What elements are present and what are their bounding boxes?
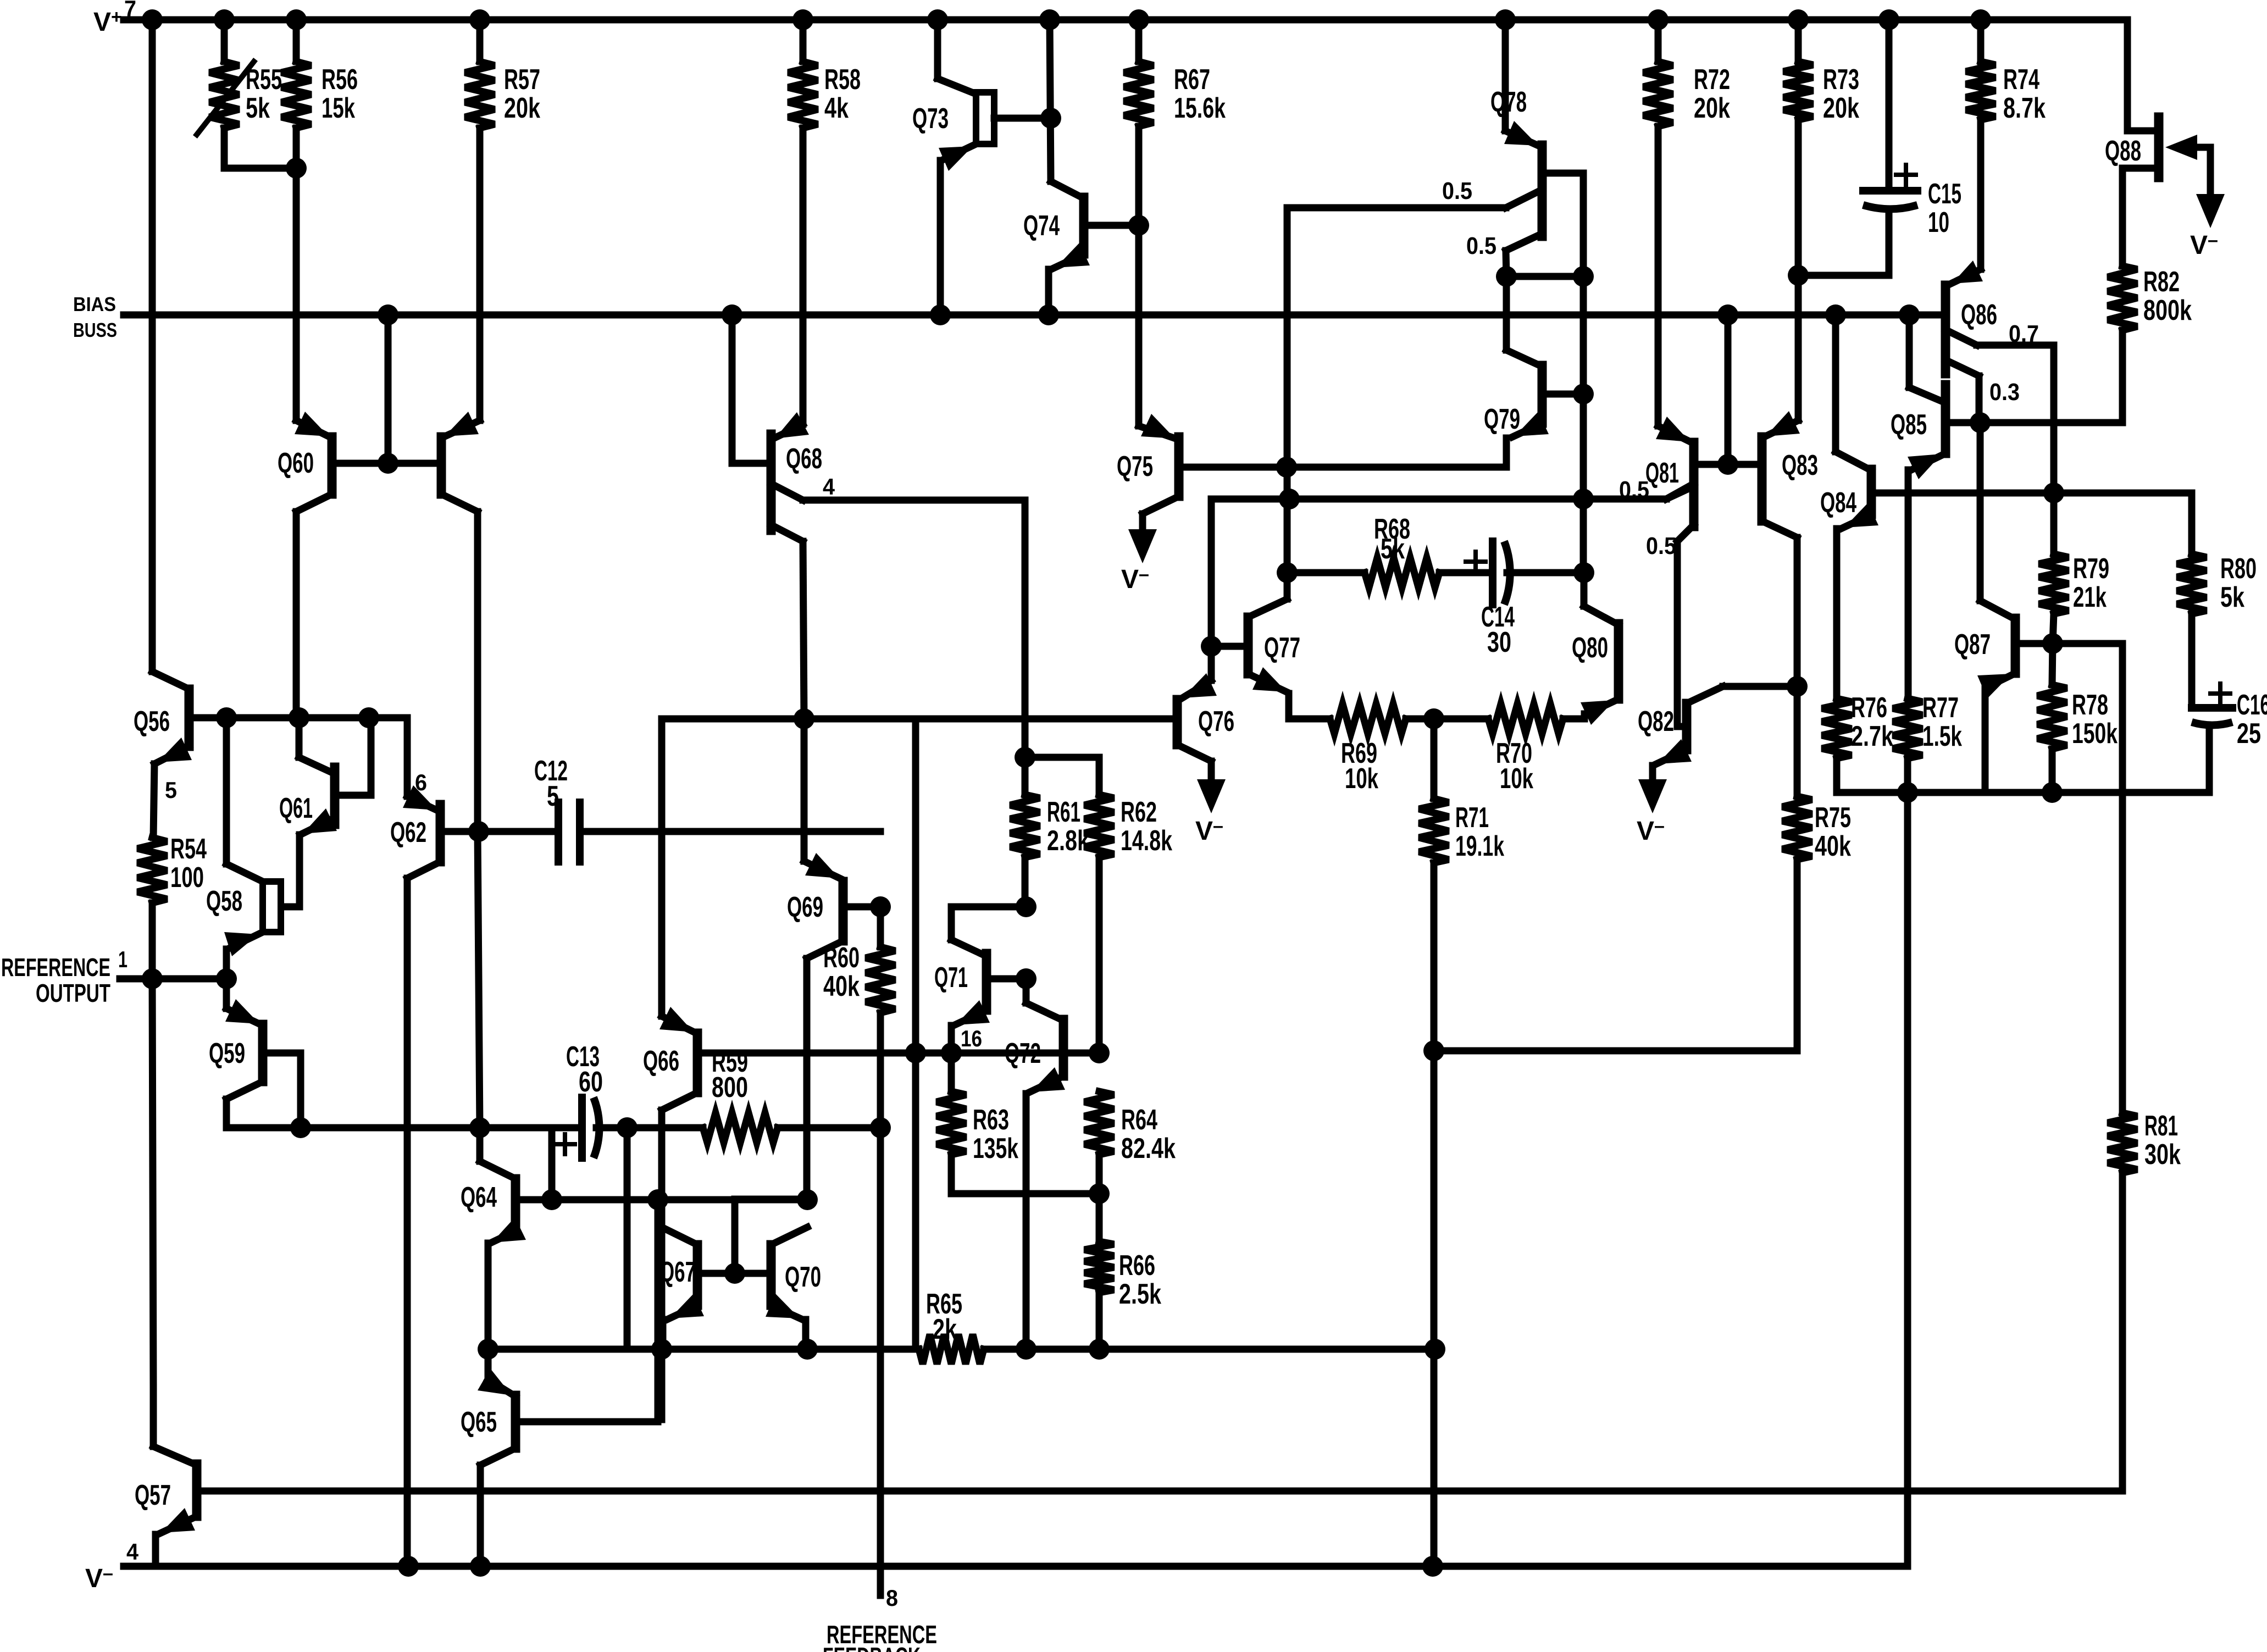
svg-text:100: 100 [170,862,204,894]
V- terminal arrow for Q76 collector [1208,761,1215,796]
resistor R78 150k [2052,644,2053,685]
svg-text:R77: R77 [1922,692,1959,724]
transistor Q74 [1079,197,1089,254]
resistor R81 30k [2108,1113,2137,1173]
junction on V+ rail [1970,9,1991,30]
svg-text:5: 5 [165,777,177,803]
svg-text:R62: R62 [1121,796,1157,828]
svg-text:2.5k: 2.5k [1119,1278,1161,1310]
V- rail (pin 4) [124,1563,1908,1570]
svg-text:30: 30 [1487,627,1511,658]
wire bias buss to Q60 bases [385,315,392,463]
resistor R77 1.5k [1893,699,1922,758]
transistor Q83 [1758,437,1767,521]
REFERENCE FEEDBACK line (pin 8) [877,1128,884,1595]
svg-text:40k: 40k [823,971,860,1002]
resistor R54 100 [137,838,167,903]
resistor R56 15k [293,20,300,62]
svg-text:R81: R81 [2144,1110,2178,1142]
svg-text:Q65: Q65 [461,1406,497,1438]
junction on bias buss [722,304,742,325]
svg-text:R58: R58 [824,64,861,96]
svg-text:Q84: Q84 [1820,487,1856,519]
svg-text:21k: 21k [2073,581,2107,613]
svg-text:5k: 5k [2220,581,2244,613]
resistor R63 135k [948,1053,955,1091]
svg-text:R57: R57 [504,64,540,96]
transistor Q86 (dual collector) [1941,285,1950,374]
svg-text:40k: 40k [1815,830,1851,862]
svg-text:Q71: Q71 [934,962,968,994]
resistor R82 800k [2119,168,2126,266]
svg-text:REFERENCE: REFERENCE [1,953,110,982]
transistor Q87 [2011,618,2020,673]
Q67/Q70 base node [724,1263,745,1284]
wire down to Q77 base and V- [1208,499,1215,646]
svg-text:14.8k: 14.8k [1121,825,1172,857]
svg-text:135k: 135k [973,1133,1018,1165]
svg-text:Q86: Q86 [1961,299,1997,331]
C15 bottom wire to R73 column [1798,272,1889,279]
svg-text:R61: R61 [1047,796,1080,828]
resistor R55 5k (trimmed) [221,20,228,62]
svg-text:R73: R73 [1823,64,1859,96]
transistor Q61 [330,767,340,824]
svg-text:Q70: Q70 [785,1261,821,1293]
wire R75 bottom to R71 node [1434,1047,1797,1055]
transistor Q58 (box symbol) [263,882,281,932]
capacitor C13 60pF [578,1097,586,1158]
svg-text:R54: R54 [170,833,207,865]
svg-text:Q85: Q85 [1891,409,1927,441]
svg-text:R66: R66 [1119,1250,1155,1282]
interstage wire [662,716,1173,723]
svg-text:20k: 20k [1694,92,1730,124]
transistor Q76 [1173,700,1182,745]
svg-text:Q58: Q58 [206,885,242,917]
transistor Q73 (box symbol) [934,20,941,79]
svg-text:R71: R71 [1455,802,1489,834]
resistor R59 800 [703,1113,778,1143]
resistor R69 10k [1330,704,1406,734]
resistor R75 40k [1782,796,1812,860]
resistor R60 40k [877,907,884,947]
svg-text:R80: R80 [2220,553,2257,585]
resistor R57 20k [476,20,484,62]
transistor Q68 (dual collector PNP) [767,434,776,530]
svg-text:Q57: Q57 [135,1479,171,1511]
resistor R64 82.4k [1084,1091,1114,1155]
transistor Q65 [511,1395,520,1448]
svg-text:Q69: Q69 [787,891,823,923]
resistor R80 5k [2188,493,2196,554]
transistor Q60 right PNP [437,437,446,494]
Q60 base wire [332,460,441,467]
V- terminal arrow for Q82 [1638,779,1667,813]
svg-text:5: 5 [547,780,559,812]
junction on V+ rail [1788,9,1809,30]
svg-text:Q60: Q60 [278,447,314,479]
R65 node wire [488,1346,919,1353]
resistor R66 2.5k [1096,1194,1103,1241]
svg-text:150k: 150k [2072,718,2118,750]
svg-text:R72: R72 [1694,64,1730,96]
wire Q60R collector down [474,512,481,831]
transistor Q77 [1244,617,1253,674]
resistor R65 2k [919,1334,984,1364]
compensation node wire [1287,569,1365,576]
svg-text:Q75: Q75 [1117,451,1153,483]
transistor Q64 [511,1179,520,1231]
svg-text:0.7: 0.7 [2009,320,2039,347]
V- terminal arrow for Q75 [1128,529,1157,563]
svg-text:R55: R55 [246,64,282,96]
junction on V+ rail [1039,9,1060,30]
svg-text:15.6k: 15.6k [1174,92,1226,124]
transistor Q79 [1538,365,1547,423]
svg-text:R78: R78 [2072,689,2108,721]
junction on V+ rail [1128,9,1149,30]
wire C13 right to R65 node [624,1128,631,1349]
svg-text:R82: R82 [2143,266,2180,298]
svg-text:2.8k: 2.8k [1047,825,1089,857]
svg-text:800k: 800k [2143,295,2192,326]
svg-text:Q56: Q56 [134,706,170,738]
transistor Q75 [1174,437,1184,496]
svg-text:C16: C16 [2237,689,2267,721]
svg-text:R76: R76 [1851,692,1887,724]
svg-text:30k: 30k [2144,1139,2181,1171]
capacitor C15 10pF [1886,20,1893,191]
svg-text:R56: R56 [322,64,358,96]
junction on V+ rail [1648,9,1669,30]
transistor Q84 [1867,469,1876,514]
junction on V+ rail [1878,9,1899,30]
node dot R55/R56 junction [286,158,307,179]
svg-text:0.5: 0.5 [1646,533,1676,559]
base bias wire to R82 [1980,330,2122,423]
junction on V+ rail [469,9,490,30]
bias return wire [1837,789,2209,796]
svg-text:R60: R60 [823,942,860,974]
svg-text:Q66: Q66 [643,1045,679,1077]
junction on V- rail [1422,1556,1443,1577]
svg-text:82.4k: 82.4k [1121,1133,1176,1165]
junction on V+ rail [927,9,948,30]
transistor Q66 [693,1033,702,1093]
resistor R73 20k [1795,20,1802,62]
transistor Q60 left PNP [328,437,337,494]
svg-text:Q81: Q81 [1645,457,1679,489]
svg-text:R75: R75 [1815,802,1851,834]
svg-text:Q61: Q61 [279,792,313,824]
wire Q62 base node down [478,831,480,1128]
svg-text:4k: 4k [824,92,849,124]
junction on bias buss [1038,304,1059,325]
transistor Q57 [192,1464,202,1516]
svg-text:Q79: Q79 [1484,403,1520,435]
svg-text:BUSS: BUSS [73,319,117,341]
driver node wire [1211,496,1666,503]
junction on bias buss [1825,304,1846,325]
svg-text:Q64: Q64 [461,1182,497,1213]
svg-text:7: 7 [124,0,136,21]
svg-text:2.7k: 2.7k [1851,720,1893,752]
svg-text:0.5: 0.5 [1442,178,1472,204]
reference node wire [226,1124,582,1132]
svg-text:Q78: Q78 [1490,86,1527,118]
svg-text:1: 1 [118,946,128,972]
transistor Q85 [1941,385,1950,453]
capacitor C16 25pF [2192,704,2232,712]
resistor R70 10k [1488,704,1563,734]
junction on V- rail [470,1556,491,1577]
resistor R79 21k [2050,493,2058,554]
svg-text:Q74: Q74 [1023,210,1060,242]
svg-text:C15: C15 [1928,178,1961,210]
transistor Q82 [1682,703,1692,750]
junction on V+ rail [214,9,235,30]
C13 plus sign [555,1142,575,1146]
svg-text:0.5: 0.5 [1466,232,1496,259]
wire riser x1666 [912,719,919,1349]
junction on V+ rail [792,9,813,30]
transistor Q69 [839,882,848,941]
svg-text:Q68: Q68 [786,443,822,475]
resistor R68 5k [1365,558,1439,587]
transistor Q67 [693,1245,702,1305]
Q75 base / Q79 collector wire [1287,464,1506,471]
svg-text:5k: 5k [1381,533,1405,565]
Q66/Q71/Q72 base wire [701,1050,1099,1057]
junction on bias buss [1717,304,1738,325]
resistor R62 14.8k [1084,795,1114,857]
C16 plus sign [2210,691,2230,696]
svg-text:15k: 15k [322,92,355,124]
svg-text:0.3: 0.3 [1989,379,2020,406]
svg-text:Q88: Q88 [2105,135,2141,167]
svg-text:10: 10 [1928,207,1949,239]
svg-text:2k: 2k [933,1313,957,1345]
svg-text:R63: R63 [973,1104,1009,1136]
svg-text:6: 6 [415,769,427,795]
svg-text:20k: 20k [1823,92,1859,124]
svg-text:1.5k: 1.5k [1922,720,1962,752]
svg-text:Q67: Q67 [659,1256,696,1288]
C15 plus sign [1896,173,1916,177]
svg-text:10k: 10k [1345,763,1378,795]
svg-text:4: 4 [823,474,835,500]
svg-text:Q77: Q77 [1264,632,1300,664]
resistor R72 20k [1655,20,1662,62]
Q71 collector path [951,907,1026,940]
resistor R74 8.7k [1977,20,1985,62]
svg-text:Q59: Q59 [209,1038,245,1069]
R61/R62 feed node [1015,747,1035,768]
svg-text:Q62: Q62 [390,817,426,849]
transistor Q78 (dual collector) [1538,145,1547,236]
junction on V+ rail [1495,9,1516,30]
svg-text:20k: 20k [504,92,540,124]
transistor Q59 [258,1024,268,1082]
svg-text:Q87: Q87 [1954,629,1991,661]
BIAS BUSS rail [124,312,1942,319]
svg-text:8: 8 [886,1585,898,1611]
resistor R58 4k [800,20,807,62]
Q84 base wire [1871,490,2054,497]
svg-text:BIAS: BIAS [73,293,116,315]
transistor Q62 [436,805,445,862]
svg-text:Q82: Q82 [1638,706,1674,738]
resistor R67 15.6k [1135,20,1143,62]
svg-text:Q72: Q72 [1005,1038,1041,1069]
svg-text:Q73: Q73 [912,103,949,135]
transistor Q56 [185,689,194,746]
svg-text:0.5: 0.5 [1619,476,1649,503]
svg-text:25: 25 [2237,718,2261,750]
junction on bias buss [930,304,951,325]
transistor Q81 (dual collector) [1689,442,1699,526]
resistor R61 2.8k [1022,757,1029,795]
svg-text:800: 800 [712,1072,748,1104]
svg-text:16: 16 [961,1025,982,1051]
junction on bias buss [1899,304,1920,325]
Q64 base wire [552,1196,807,1204]
transistor Q88 [2124,20,2131,131]
svg-text:R64: R64 [1121,1104,1157,1136]
Q79 base vertical [1580,276,1587,573]
wire R77 node to V- rail [1904,792,1911,1566]
svg-text:FEEDBACK: FEEDBACK [823,1642,921,1652]
collector 1 wire (label 4) [803,500,1025,757]
junction on V+ rail [286,9,307,30]
transistor Q70 [767,1245,776,1305]
svg-text:Q76: Q76 [1198,706,1234,738]
junction on V- rail [398,1556,419,1577]
C14 plus sign [1466,559,1486,564]
svg-text:10k: 10k [1500,763,1533,795]
capacitor C14 30pF [1489,541,1496,605]
diode connection wire [1506,273,1583,280]
wire Q87 base to R81 [2053,644,2122,1113]
svg-text:4: 4 [126,1539,139,1565]
V+ power rail (pin 7) [124,16,2127,24]
svg-text:8.7k: 8.7k [2003,92,2046,124]
svg-text:R79: R79 [2073,553,2109,585]
transistor Q80 [1614,624,1623,699]
svg-text:Q83: Q83 [1782,450,1818,481]
svg-text:OUTPUT: OUTPUT [36,979,110,1007]
trim slash through R55 [197,62,254,135]
resistor R76 2.7k [1822,699,1852,758]
wire base node to Q62 emitter [369,718,407,796]
Q57 base wire (horizontal) [197,1488,2121,1495]
resistor R71 19.1k [1431,719,1438,799]
svg-text:19.1k: 19.1k [1455,830,1504,862]
svg-text:R74: R74 [2003,64,2039,96]
transistor Q71 [982,953,991,1010]
svg-text:Q80: Q80 [1572,632,1608,664]
junction on V+ rail [142,9,163,30]
Q56 base wire [189,714,369,722]
svg-text:R67: R67 [1174,64,1210,96]
branch wire to Q64 base [548,1128,556,1200]
svg-text:5k: 5k [246,92,270,124]
junction on bias buss [378,304,398,325]
svg-text:60: 60 [579,1066,603,1098]
REFERENCE OUTPUT wire (pin 1) [120,975,226,983]
capacitor C12 5pF [479,828,558,835]
transistor Q72 [1059,1019,1068,1076]
